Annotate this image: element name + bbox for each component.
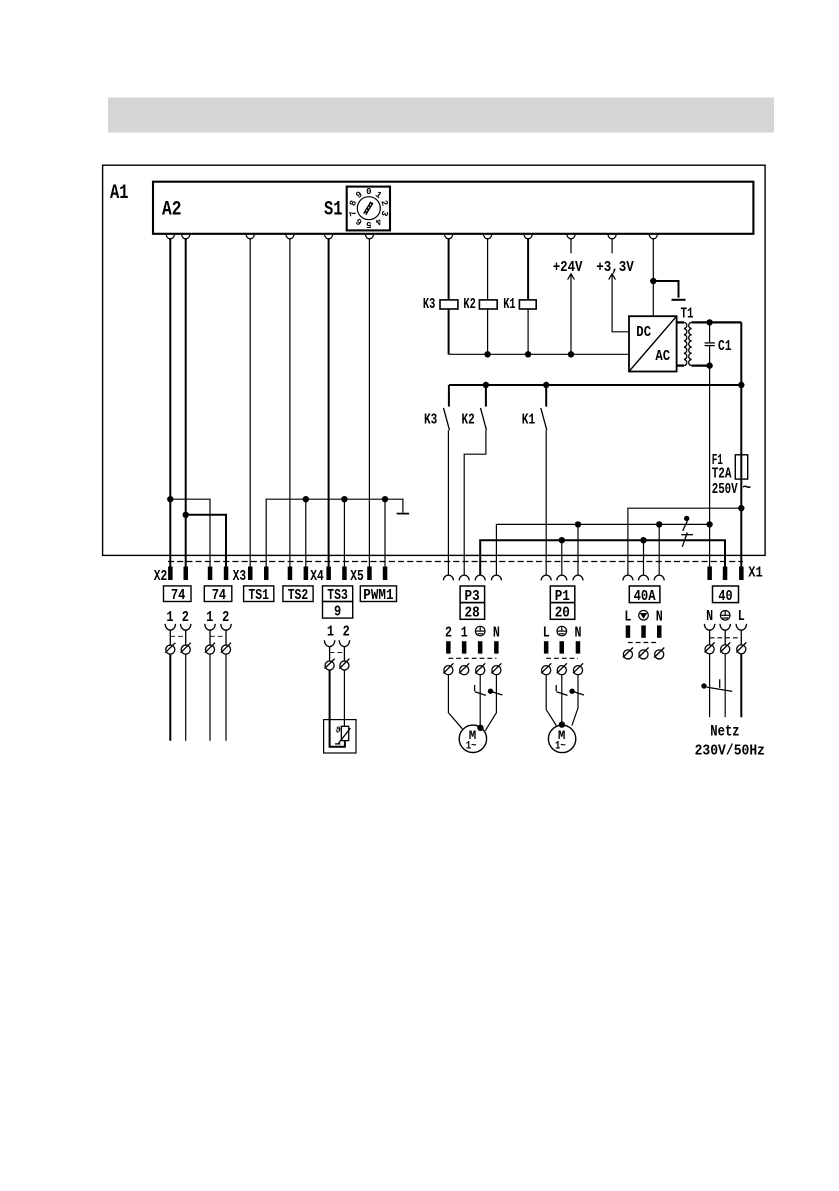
plug hooks P3 (443, 575, 501, 580)
box 28 (460, 603, 485, 620)
wire branch to X2-3 (170, 499, 210, 566)
svg-text:TS2: TS2 (288, 588, 309, 604)
terminal pins X1 mains (707, 567, 743, 581)
svg-text:1: 1 (461, 624, 468, 641)
svg-text:K1: K1 (522, 412, 535, 429)
wire +24V with arrow (570, 238, 572, 253)
node P1 motor junction (559, 721, 565, 727)
screw terminals P1 (541, 663, 583, 674)
svg-text:N: N (493, 624, 500, 641)
wire mains L (bold) (740, 654, 742, 717)
wire mains N (709, 654, 711, 717)
wire P3 speed2 to motor (448, 675, 462, 729)
node secondary bottom (706, 362, 712, 368)
wire P1 N to motor (572, 675, 578, 726)
PE symbol P3 (475, 626, 485, 636)
pins link dashed P3 (448, 657, 496, 659)
wire +3,3V with arrow (611, 238, 613, 253)
wire P3 N to motor (485, 675, 496, 731)
svg-text:A1: A1 (110, 182, 129, 205)
N bus (496, 524, 709, 574)
wire K3 coil to bus (448, 309, 450, 354)
wire 74 a1 (bold) (169, 654, 171, 741)
wire TS3-2 (343, 499, 345, 566)
node P1 PE (559, 537, 565, 543)
screw terminals mains (705, 642, 747, 653)
box 20 (550, 603, 575, 620)
svg-text:C1: C1 (718, 338, 732, 355)
box P3 (460, 586, 485, 603)
plug hooks 40A (623, 575, 664, 580)
wire 74 a2 (185, 654, 187, 741)
wire K1 coil to bus (527, 309, 529, 354)
box 40A (629, 586, 660, 603)
wire K3 contact to X1 (447, 430, 449, 575)
PE bus (bold) (480, 540, 725, 575)
wire K1 contact to X1 (545, 430, 547, 575)
wire PWM1-2 (384, 499, 386, 566)
node 40A L branch (738, 505, 744, 511)
svg-text:20: 20 (555, 605, 570, 622)
svg-text:~: ~ (742, 480, 751, 497)
wire 74 b2 (225, 654, 227, 741)
svg-text:9: 9 (334, 604, 341, 620)
box 74 second (204, 586, 232, 602)
screw terminals P3 (443, 663, 501, 674)
svg-text:T1: T1 (681, 306, 694, 323)
svg-text:L: L (543, 624, 550, 641)
svg-text:X3: X3 (233, 569, 247, 585)
wire K1 coil feed (bold) (527, 238, 529, 300)
svg-text:ϑ: ϑ (336, 726, 341, 736)
svg-text:+3,3V: +3,3V (596, 259, 634, 276)
svg-text:0: 0 (366, 187, 371, 197)
A2 connector bumps (166, 234, 657, 239)
svg-text:S1: S1 (324, 199, 343, 222)
terminal pins X4 (326, 567, 346, 581)
node secondary top (706, 319, 712, 325)
node junction X2-2 branch (183, 512, 189, 518)
thermistor symbol (335, 726, 350, 744)
socket hooks 74 a (165, 624, 231, 645)
wire branch to X2-4 (bold) (186, 515, 226, 567)
svg-text:N: N (706, 608, 713, 625)
contact supply bus (bold) (449, 384, 741, 386)
box PWM1 (360, 586, 396, 602)
svg-text:X2: X2 (154, 569, 168, 585)
PE symbol mains (720, 611, 730, 621)
pcb A2 outline (153, 182, 753, 234)
svg-text:1: 1 (166, 609, 173, 626)
node P1 N (575, 521, 581, 527)
wire TS1-1 (249, 238, 251, 567)
pins P3 (446, 641, 499, 653)
wire mains PE (724, 654, 726, 717)
contact K2 (462, 385, 487, 430)
svg-text:K2: K2 (462, 412, 475, 429)
socket link dashed 74 a (170, 635, 185, 637)
plug break contact P3 (475, 685, 503, 695)
motor M2 pump (548, 725, 575, 752)
motor M1 pump (459, 725, 486, 752)
pins link dashed P1 (546, 657, 578, 659)
wire K2 contact to X1 (464, 430, 486, 575)
screw terminals 40A (623, 648, 665, 659)
svg-text:40: 40 (718, 588, 732, 605)
wire TS3-1 (bold) (328, 238, 330, 567)
box TS1 (244, 586, 274, 602)
wire L branch to 40A (628, 508, 741, 575)
socket link dashed mains (710, 637, 742, 639)
node K1 contact (543, 382, 549, 388)
node PWM1-2 (382, 496, 388, 502)
temperature sensor TS3 box (324, 720, 356, 753)
svg-text:2: 2 (222, 609, 229, 626)
converter U1 DC/AC (629, 316, 677, 371)
wire 74 b1 (209, 654, 211, 741)
plug break contact P1 (556, 685, 584, 695)
wire mains N vertical (709, 524, 711, 566)
svg-text:DC: DC (636, 324, 651, 341)
svg-text:28: 28 (465, 605, 480, 622)
node 40A N (656, 521, 662, 527)
relay coil K1 (519, 300, 536, 309)
svg-text:A2: A2 (162, 199, 182, 222)
svg-text:230V/50Hz: 230V/50Hz (695, 743, 765, 760)
wire X2-1 (bold) (169, 238, 171, 567)
transformer T1 primary (677, 321, 684, 323)
svg-text:74: 74 (212, 588, 227, 604)
wire L main (bold) (740, 322, 742, 566)
svg-text:X4: X4 (310, 569, 324, 585)
svg-text:AC: AC (655, 348, 670, 365)
box 74 first (164, 586, 192, 602)
node control ground branch (650, 278, 656, 284)
svg-text:K1: K1 (503, 296, 515, 313)
box 9 (323, 602, 353, 619)
svg-text:5: 5 (366, 219, 371, 229)
svg-text:X5: X5 (350, 569, 364, 585)
ground chassis (397, 513, 410, 515)
fuse F1 (735, 455, 747, 479)
svg-text:40A: 40A (634, 588, 656, 605)
pins 40A (626, 625, 662, 637)
socket hooks mains (704, 624, 746, 645)
svg-text:2: 2 (343, 624, 350, 641)
fan symbol (639, 611, 649, 621)
socket hooks TS3 (324, 640, 349, 661)
wire P1 PE to motor (561, 675, 563, 725)
svg-text:2: 2 (182, 609, 189, 626)
svg-text:N: N (575, 624, 582, 641)
sensor ground bus (266, 499, 403, 566)
svg-text:2: 2 (445, 624, 452, 641)
transformer T1 secondary (692, 321, 742, 323)
PE symbol P1 (557, 626, 567, 636)
svg-text:250V: 250V (712, 481, 738, 498)
wire TS2-2 (305, 499, 307, 566)
plug hooks P1 (541, 575, 583, 580)
node 40A PE (640, 537, 646, 543)
wire to signal ground (653, 281, 678, 298)
wire K2 coil to bus (487, 309, 489, 354)
node P3 motor junction (477, 725, 483, 731)
wire P1 PE (561, 540, 563, 575)
screw terminals 74 a (165, 643, 231, 654)
svg-text:Netz: Netz (710, 723, 739, 741)
wire 40A PE (643, 540, 645, 575)
box TS2 (283, 586, 313, 602)
capacitor C1 (705, 322, 715, 365)
terminal pins X5 (367, 567, 387, 581)
wire P3 PE to motor (479, 675, 481, 728)
wire converter control (652, 238, 654, 316)
wire TS3 sensor 2 (343, 670, 345, 726)
node K2 contact (483, 382, 489, 388)
wire secondary N down to N bus (709, 366, 711, 525)
svg-text:1~: 1~ (466, 740, 477, 752)
svg-text:X1: X1 (748, 566, 763, 582)
svg-text:K3: K3 (423, 296, 435, 313)
svg-text:1: 1 (327, 624, 334, 641)
break point contact on N bus (683, 516, 690, 531)
contact K3 (424, 385, 450, 430)
svg-text:1~: 1~ (555, 740, 566, 752)
wire TS3 sensor 1 (bold) (330, 670, 345, 747)
svg-text:L: L (624, 608, 631, 625)
wire K2 coil feed (487, 238, 489, 300)
mains break contact (701, 679, 732, 691)
wire PWM1-1 (368, 238, 370, 567)
wire TS2-1 (289, 238, 291, 567)
gray header bar (108, 98, 774, 133)
box P1 (550, 586, 575, 603)
svg-text:K2: K2 (463, 296, 475, 313)
box 40 (713, 586, 739, 603)
relay coil K2 (479, 300, 497, 309)
wire P1 N (577, 524, 579, 574)
screw terminals TS3 (325, 659, 350, 670)
svg-text:T2A: T2A (712, 466, 732, 483)
socket link dashed 74 b (210, 635, 226, 637)
svg-text:74: 74 (171, 588, 186, 604)
relay coil K3 (440, 300, 458, 309)
node junction X2-1 branch (167, 496, 173, 502)
svg-text:+24V: +24V (553, 259, 583, 276)
terminal strip dashed line (168, 561, 743, 563)
terminal pins X2 (168, 567, 228, 581)
svg-text:N: N (656, 608, 663, 625)
box TS3 (323, 586, 353, 602)
wire X2-2 (bold) (185, 238, 187, 567)
terminal pins X3 (248, 567, 308, 581)
wire P1 L to motor (546, 675, 556, 726)
svg-text:PWM1: PWM1 (363, 588, 393, 604)
svg-text:TS1: TS1 (248, 588, 269, 604)
node +24V bus (568, 351, 574, 357)
dc supply bus (449, 353, 629, 355)
node K1 bus (525, 351, 531, 357)
ground bar (672, 299, 686, 301)
svg-text:1: 1 (206, 609, 213, 626)
svg-text:L: L (738, 608, 745, 625)
break point contact on PE bus (681, 533, 693, 547)
wire 40A N (658, 524, 660, 574)
controller board A1 outline (103, 165, 766, 555)
contact K1 (522, 385, 547, 430)
node K2 bus (484, 351, 490, 357)
node TS3-2 (341, 496, 347, 502)
wire K3 coil feed (bold) (448, 238, 450, 300)
node TS2-2 (303, 496, 309, 502)
socket link dashed TS3 (330, 652, 345, 654)
node L contact bus (738, 382, 744, 388)
rotary switch S1 (347, 187, 390, 231)
svg-text:K3: K3 (424, 412, 437, 429)
pins link dashed 40A (628, 642, 659, 644)
pins P1 (544, 641, 580, 653)
node N bus to mains N (706, 521, 712, 527)
